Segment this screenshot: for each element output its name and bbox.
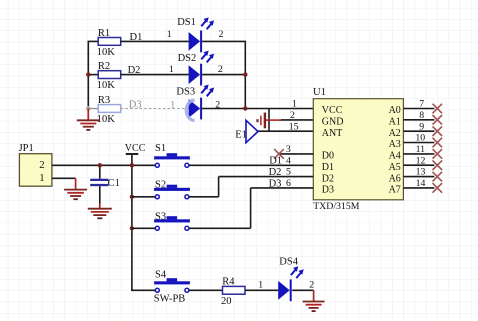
no-connect X on pin 3	[274, 149, 284, 159]
svg-text:S2: S2	[155, 180, 166, 191]
connector JP1	[19, 143, 52, 186]
svg-text:2: 2	[309, 280, 314, 291]
svg-text:10K: 10K	[97, 80, 116, 91]
wire S2 riser	[218, 177, 220, 197]
no-connect X on pin 12	[433, 160, 443, 170]
junction left rail / R3 (grey)	[86, 106, 90, 110]
svg-text:R3: R3	[98, 95, 110, 106]
wire U1 pin 12	[403, 164, 434, 166]
svg-text:GND: GND	[322, 117, 344, 128]
svg-text:D3: D3	[322, 185, 334, 196]
svg-text:R1: R1	[98, 28, 110, 39]
wire U1 pin 7	[403, 108, 434, 110]
resistor R3	[97, 95, 121, 125]
no-connect X on pin 10	[433, 138, 443, 148]
svg-text:1: 1	[170, 100, 175, 111]
svg-text:A4: A4	[389, 151, 401, 162]
wire VCC rail to S2	[132, 196, 155, 198]
resistor R1	[97, 28, 121, 58]
svg-text:1: 1	[169, 64, 174, 75]
no-connect X on pin 11	[433, 149, 443, 159]
svg-text:VCC: VCC	[322, 105, 343, 116]
no-connect X on pin 9	[433, 126, 443, 136]
svg-text:2: 2	[218, 64, 223, 75]
wire U1 pin 10	[403, 142, 434, 144]
svg-text:9: 9	[419, 121, 424, 132]
LED DS1	[189, 17, 215, 52]
LED DS3	[189, 85, 215, 120]
wire rail to R2	[88, 74, 98, 76]
wire D1 net R1 to DS1	[121, 40, 189, 42]
no-connect X on pin 7	[433, 104, 443, 114]
wire U1 pin 13	[403, 176, 434, 178]
wire to U1 pin 5 (net D2)	[219, 176, 314, 178]
wire to U1 pin 6 (net D3)	[251, 187, 314, 189]
power port VCC	[125, 143, 146, 165]
push-button switch S1	[154, 143, 190, 167]
wire JP1 pin 1 stub	[52, 177, 76, 179]
svg-text:1: 1	[292, 99, 297, 110]
ground GND at JP1 pin 1	[64, 178, 87, 199]
no-connect X on pin 14	[433, 183, 443, 193]
svg-text:1: 1	[258, 280, 263, 291]
wire U1 pin 9	[403, 130, 434, 132]
no-connect X on pin 8	[433, 115, 443, 125]
svg-text:11: 11	[416, 144, 426, 155]
resistor R2	[97, 61, 121, 91]
svg-text:13: 13	[416, 167, 426, 178]
capacitor C1	[90, 178, 120, 189]
svg-text:2: 2	[290, 110, 295, 121]
no-connect X on pin 13	[433, 172, 443, 182]
wire C1 top stem	[99, 165, 101, 178]
svg-text:A0: A0	[389, 105, 401, 116]
svg-text:A2: A2	[389, 128, 401, 139]
svg-text:2: 2	[219, 29, 224, 40]
svg-text:A5: A5	[389, 162, 401, 173]
junction VCC rail / S1	[130, 163, 134, 167]
svg-text:1: 1	[39, 172, 44, 184]
wire VCC rail to S4	[131, 288, 133, 291]
wire C1 bottom stem	[99, 186, 101, 203]
svg-text:E1: E1	[235, 129, 247, 140]
wire JP1 pin 2 to VCC rail / S1	[52, 164, 155, 166]
svg-text:10: 10	[415, 133, 425, 144]
svg-text:7: 7	[419, 99, 424, 110]
wire U1 pin 3 stub	[278, 153, 313, 155]
svg-text:2: 2	[39, 159, 44, 171]
wire S2 right	[189, 196, 219, 198]
svg-text:U1: U1	[313, 87, 326, 98]
svg-text:DS1: DS1	[177, 17, 196, 28]
svg-text:D1: D1	[322, 162, 334, 173]
ground GND below C1	[88, 204, 112, 219]
svg-text:20: 20	[221, 296, 232, 307]
wire rail to R1	[88, 40, 99, 42]
wire left rail (R1-R2-R3 common)	[87, 41, 89, 106]
svg-text:1: 1	[167, 29, 172, 40]
svg-text:VCC: VCC	[125, 143, 146, 154]
svg-text:ANT: ANT	[322, 128, 343, 139]
wire S3 riser	[250, 188, 252, 228]
wire S1 to U1 pin 4 (net D1)	[189, 164, 313, 166]
svg-text:R4: R4	[222, 277, 235, 288]
LED DS2	[189, 51, 215, 86]
ground GND at DS4	[303, 290, 325, 311]
wire right rail (LED cathodes)	[244, 41, 246, 108]
wire U1 pin 11	[403, 153, 434, 155]
IC U1 body	[313, 87, 403, 212]
svg-text:12: 12	[416, 155, 426, 166]
push-button switch S4	[154, 270, 190, 293]
svg-text:D0: D0	[322, 151, 334, 162]
push-button switch S3	[154, 211, 190, 230]
resistor R4	[221, 277, 245, 307]
wire U1 pin 2 stub	[281, 119, 313, 121]
svg-text:A3: A3	[389, 139, 401, 150]
junction right rail / VCC pin wire	[243, 106, 247, 110]
wire DS3 to U1 pin 1 (VCC net)	[202, 108, 313, 110]
wire VCC-pin branch down to ANT wire	[268, 109, 270, 132]
wire U1 pin 14	[403, 187, 434, 189]
junction left rail / R2	[86, 72, 90, 76]
svg-text:SW-PB: SW-PB	[154, 294, 186, 305]
svg-text:TXD/315M: TXD/315M	[313, 201, 360, 212]
wire VCC rail to S3	[132, 227, 155, 229]
svg-text:14: 14	[416, 178, 426, 189]
svg-text:A7: A7	[389, 185, 401, 196]
wire D2 net R2 to DS2	[121, 74, 189, 76]
svg-text:D2: D2	[322, 173, 334, 184]
wire rail to R3 (selected, grey)	[88, 108, 98, 110]
svg-text:JP1: JP1	[19, 143, 34, 154]
antenna E1	[235, 120, 258, 142]
wire S4 to R4	[189, 289, 223, 291]
svg-text:A6: A6	[389, 173, 401, 184]
junction VCC rail / S3	[130, 226, 134, 230]
svg-text:R2: R2	[98, 61, 110, 72]
svg-text:15: 15	[289, 121, 299, 132]
junction VCC rail / S2	[130, 195, 134, 199]
svg-text:8: 8	[419, 110, 424, 121]
svg-text:DS4: DS4	[279, 257, 298, 268]
highlight arc on DS3 (selection artifact)	[186, 100, 194, 120]
wire S3 right	[189, 227, 251, 229]
wire U1 pin 8	[403, 119, 434, 121]
svg-text:DS2: DS2	[178, 53, 197, 64]
wire DS1 to right rail	[202, 40, 246, 42]
svg-text:S1: S1	[155, 143, 166, 154]
ground GND at resistor rail	[77, 109, 100, 130]
svg-text:S4: S4	[155, 270, 167, 281]
wire R4 to DS4	[245, 289, 278, 291]
LED DS4	[278, 266, 304, 301]
wire DS4 to ground	[292, 289, 313, 291]
push-button switch S2	[154, 180, 190, 199]
wire D3 net R3 to DS3 (selected, dashed grey)	[121, 108, 189, 110]
svg-text:DS3: DS3	[176, 87, 195, 98]
svg-text:S3: S3	[155, 211, 166, 222]
svg-text:10K: 10K	[97, 47, 116, 58]
wire DS2 to right rail	[202, 74, 245, 76]
wire VCC rail	[131, 165, 133, 290]
svg-text:C1: C1	[108, 178, 120, 189]
power ground port on U1 pin 2	[256, 113, 281, 129]
junction right rail / DS2	[243, 72, 247, 76]
wire ANT net E1 to U1 pin 15	[258, 130, 313, 132]
junction C1 / VCC wire	[98, 163, 102, 167]
svg-text:A1: A1	[389, 117, 401, 128]
